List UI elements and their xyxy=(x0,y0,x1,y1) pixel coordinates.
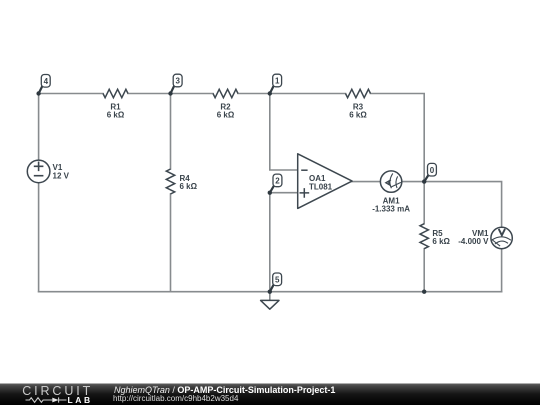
svg-text:6 kΩ: 6 kΩ xyxy=(432,237,450,246)
svg-text:LAB: LAB xyxy=(68,395,93,405)
junction node0 xyxy=(422,179,426,183)
svg-text:6 kΩ: 6 kΩ xyxy=(180,182,198,191)
node 2 label xyxy=(270,174,282,193)
svg-text:-4.000 V: -4.000 V xyxy=(458,237,489,246)
wire ammeter to node0 and to VM1 corner xyxy=(402,182,502,228)
junction node3 xyxy=(168,91,172,95)
voltage source V1 12V xyxy=(27,160,69,183)
svg-text:0: 0 xyxy=(430,166,435,175)
resistor R2 6k xyxy=(213,89,238,119)
svg-text:1: 1 xyxy=(275,77,280,86)
wire left branch node4 down to V1 xyxy=(38,94,40,161)
CircuitLab logo xyxy=(22,384,93,405)
wire bottom rail xyxy=(39,291,502,293)
ground symbol xyxy=(261,300,279,309)
wire ground stub xyxy=(269,292,271,301)
wire R5 to bottom rail xyxy=(423,249,425,292)
wire top rail R2 to R3 xyxy=(238,93,346,95)
svg-text:4: 4 xyxy=(44,77,49,86)
voltmeter VM1 xyxy=(458,227,512,248)
node 0 label xyxy=(424,163,436,181)
junction node1 xyxy=(268,91,272,95)
wire top rail node4 to R1 xyxy=(39,93,103,95)
svg-text:5: 5 xyxy=(275,275,280,284)
ammeter AM1 xyxy=(372,171,410,214)
junction ground xyxy=(268,290,272,294)
svg-text:TL081: TL081 xyxy=(309,182,333,191)
wire R4 to bottom rail xyxy=(170,194,172,292)
junction node2 xyxy=(268,191,272,195)
svg-text:2: 2 xyxy=(275,177,280,186)
resistor R5 6k vertical xyxy=(420,224,451,249)
op-amp OA1 TL081 xyxy=(298,154,352,209)
svg-text:http://circuitlab.com/c9hb4b2w: http://circuitlab.com/c9hb4b2w35d4 xyxy=(113,394,239,403)
resistor R1 6k xyxy=(103,89,128,119)
node 3 label xyxy=(171,74,183,93)
svg-text:6 kΩ: 6 kΩ xyxy=(349,110,367,119)
svg-text:6 kΩ: 6 kΩ xyxy=(107,110,125,119)
wire top rail R1 to R2 xyxy=(128,93,213,95)
svg-text:-1.333 mA: -1.333 mA xyxy=(372,205,410,214)
wire op-amp output to ammeter xyxy=(352,181,380,183)
wire VM1 to bottom rail xyxy=(501,249,503,292)
svg-text:6 kΩ: 6 kΩ xyxy=(217,110,235,119)
node 5 label xyxy=(270,273,282,292)
junction R5 bottom xyxy=(422,290,426,294)
wire V1 to bottom rail xyxy=(38,183,40,292)
resistor R4 6k vertical xyxy=(166,169,197,194)
svg-text:3: 3 xyxy=(175,77,180,86)
wire node1 down and to op-amp inverting input xyxy=(270,94,298,171)
wire node3 down to R4 xyxy=(170,94,172,170)
wire node0 down to R5 xyxy=(423,182,425,224)
wire top rail R3 to corner, down to node 0 xyxy=(371,94,425,182)
node 4 label xyxy=(39,75,51,94)
resistor R3 6k xyxy=(346,89,371,119)
svg-text:12 V: 12 V xyxy=(53,171,70,180)
wire node2 to op-amp non-inverting input xyxy=(270,192,298,194)
junction node4 xyxy=(36,91,40,95)
node 1 label xyxy=(270,74,282,93)
wire node2 down to ground rail xyxy=(269,193,271,292)
